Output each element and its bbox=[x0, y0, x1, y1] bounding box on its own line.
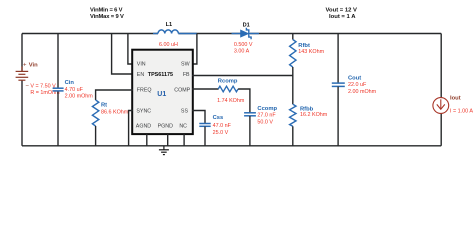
wire Cout branch upper bbox=[337, 34, 339, 83]
svg-text:Iout: Iout bbox=[450, 95, 461, 101]
capacitor Css bbox=[199, 124, 210, 127]
svg-text:2.00 mOhm: 2.00 mOhm bbox=[65, 93, 94, 99]
ground bbox=[159, 146, 169, 155]
svg-text:SW: SW bbox=[181, 62, 190, 68]
svg-text:+: + bbox=[23, 62, 27, 68]
resistor Rt bbox=[92, 100, 98, 126]
svg-text:Css: Css bbox=[213, 115, 224, 121]
wire top rail middle segment bbox=[178, 33, 240, 35]
svg-text:FREQ: FREQ bbox=[137, 87, 152, 93]
battery V1 (Vin source) bbox=[16, 67, 29, 81]
wire Ccomp to ground rail bbox=[249, 116, 251, 146]
current source Iout bbox=[433, 98, 449, 114]
wire PGND pin stub bbox=[167, 134, 169, 146]
svg-text:VinMin = 6 V: VinMin = 6 V bbox=[90, 7, 123, 13]
wire Cout branch lower bbox=[337, 87, 339, 146]
inductor L1 left lead bbox=[153, 33, 158, 35]
diode D1 schottky cathode bar bbox=[246, 28, 251, 40]
svg-text:Cin: Cin bbox=[65, 80, 75, 86]
svg-text:L1: L1 bbox=[166, 22, 173, 28]
svg-text:Vout = 12 V: Vout = 12 V bbox=[326, 7, 358, 13]
capacitor Ccomp bbox=[244, 113, 256, 116]
svg-text:V = 7.50 V: V = 7.50 V bbox=[30, 84, 56, 90]
svg-text:4.70 uF: 4.70 uF bbox=[65, 87, 84, 93]
svg-text:1.74 KOhm: 1.74 KOhm bbox=[217, 98, 245, 104]
svg-text:−: − bbox=[25, 83, 29, 89]
svg-text:50.0 V: 50.0 V bbox=[257, 120, 273, 126]
wire FB to feedback divider bbox=[192, 75, 293, 77]
svg-text:Cout: Cout bbox=[348, 75, 361, 81]
svg-text:16.2 KOhm: 16.2 KOhm bbox=[300, 112, 328, 118]
wire Css to ground rail bbox=[204, 127, 206, 146]
wire top rail right segment bbox=[250, 33, 441, 35]
svg-text:Vin: Vin bbox=[29, 62, 38, 68]
svg-text:2.00 mOhm: 2.00 mOhm bbox=[348, 89, 377, 95]
svg-text:25.0 V: 25.0 V bbox=[213, 130, 229, 136]
op-amp U1 IC body TPS61175 bbox=[132, 50, 193, 134]
wire SW branch bbox=[192, 34, 197, 65]
svg-text:6.00 uH: 6.00 uH bbox=[159, 42, 178, 48]
wire bottom ground rail bbox=[22, 145, 441, 147]
svg-text:COMP: COMP bbox=[174, 87, 190, 93]
svg-text:22.0 uF: 22.0 uF bbox=[348, 82, 367, 88]
svg-text:3.00 A: 3.00 A bbox=[234, 48, 250, 54]
svg-text:TPS61175: TPS61175 bbox=[148, 72, 173, 78]
svg-text:PGND: PGND bbox=[158, 123, 173, 129]
svg-text:Rfbt: Rfbt bbox=[298, 43, 310, 49]
wire right rail lower bbox=[440, 113, 442, 145]
capacitor Cout bbox=[332, 83, 345, 86]
svg-text:D1: D1 bbox=[243, 23, 250, 29]
resistor Rfbt bbox=[290, 40, 296, 68]
wire Rfbt to FB node bbox=[292, 67, 294, 104]
svg-text:SS: SS bbox=[181, 108, 189, 114]
diode D1 body bbox=[241, 30, 249, 37]
diode D1 anode lead bbox=[232, 33, 241, 35]
wire left rail upper (Vin+) bbox=[21, 34, 23, 72]
svg-text:U1: U1 bbox=[157, 91, 166, 98]
svg-text:AGND: AGND bbox=[136, 123, 151, 129]
diode D1 cathode lead bbox=[250, 33, 260, 35]
inductor L1 bbox=[158, 30, 178, 34]
svg-text:Rcomp: Rcomp bbox=[218, 79, 238, 85]
svg-text:EN: EN bbox=[137, 72, 145, 78]
wire NC pin stub bbox=[183, 134, 185, 146]
svg-text:Rt: Rt bbox=[101, 103, 107, 109]
svg-text:86.6 KOhm: 86.6 KOhm bbox=[101, 110, 129, 116]
svg-text:I = 1.00 A: I = 1.00 A bbox=[450, 108, 473, 114]
svg-text:47.0 nF: 47.0 nF bbox=[213, 123, 232, 129]
wire left rail lower (Vin-) bbox=[21, 80, 23, 146]
wire Cin branch lower bbox=[57, 91, 59, 146]
resistor Rfbb bbox=[290, 104, 296, 126]
wire Rfbt top stub bbox=[292, 34, 294, 40]
svg-text:SYNC: SYNC bbox=[136, 108, 151, 114]
wire Rcomp to Ccomp bbox=[238, 89, 250, 113]
inductor L1 right lead bbox=[178, 33, 197, 35]
wire Cin branch upper bbox=[57, 34, 59, 88]
wire Rt to ground rail bbox=[95, 126, 97, 146]
svg-text:NC: NC bbox=[179, 123, 187, 129]
svg-text:VinMax = 9 V: VinMax = 9 V bbox=[90, 14, 124, 20]
wire AGND pin stub bbox=[146, 134, 148, 146]
wire SS to Css bbox=[192, 111, 205, 124]
wire EN branch bbox=[112, 34, 133, 75]
wire COMP to Rcomp bbox=[192, 88, 219, 90]
wire VIN branch bbox=[128, 34, 133, 65]
wire FREQ to Rt bbox=[96, 90, 133, 100]
svg-text:VIN: VIN bbox=[137, 62, 146, 68]
svg-text:Iout = 1 A: Iout = 1 A bbox=[329, 14, 356, 20]
resistor Rcomp bbox=[218, 86, 238, 92]
wire top rail left segment bbox=[22, 33, 158, 35]
svg-text:27.0 nF: 27.0 nF bbox=[257, 113, 276, 119]
wire SYNC to ground rail bbox=[129, 111, 133, 146]
svg-text:0.500 V: 0.500 V bbox=[234, 42, 253, 48]
svg-text:143 KOhm: 143 KOhm bbox=[298, 49, 324, 55]
svg-text:FB: FB bbox=[183, 72, 190, 78]
capacitor Cin bbox=[53, 88, 64, 91]
wire Rfbb to ground rail bbox=[292, 126, 294, 146]
svg-text:Ccomp: Ccomp bbox=[257, 106, 277, 112]
wire right rail upper bbox=[440, 34, 442, 98]
